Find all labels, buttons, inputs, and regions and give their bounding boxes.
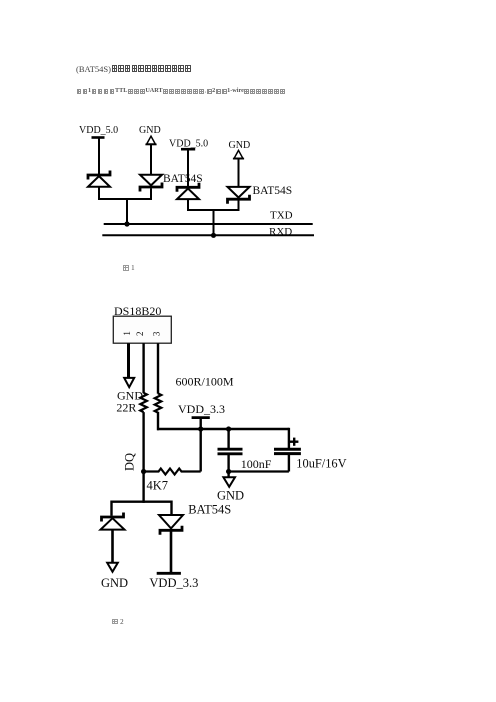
net label VDD_5.0 (pair 2): [169, 139, 208, 150]
svg-text:100nF: 100nF: [241, 457, 272, 471]
subtitle paragraph: [76, 89, 286, 97]
diode D5 BAT54S (cathode to DQ, anode to GND): [101, 513, 125, 530]
svg-text:GND: GND: [101, 576, 128, 590]
svg-text:VDD_3.3: VDD_3.3: [178, 402, 225, 416]
wire pin3 upper: [157, 343, 159, 393]
wire rail right corner down: [288, 428, 290, 448]
net label TXD: [270, 210, 293, 222]
net label VDD_3.3: [178, 402, 225, 416]
svg-text:VDD_5.0: VDD_5.0: [169, 139, 208, 150]
svg-text:VDD_3.3: VDD_3.3: [149, 576, 198, 590]
svg-text:2: 2: [135, 332, 145, 337]
wire VDD to D1 cathode: [98, 139, 100, 175]
svg-text:GND: GND: [229, 140, 251, 151]
capacitor C2 10uF/16V polarized: [274, 449, 301, 471]
caption 图 1: [123, 265, 133, 283]
net label RXD: [269, 226, 292, 238]
wire pin3 to rail corner: [158, 412, 159, 429]
wire pin2 upper: [142, 343, 144, 393]
junction on RXD: [211, 233, 216, 238]
diode D1 BAT54S upper half (cathode to VDD_5.0): [88, 171, 110, 187]
svg-text:3: 3: [151, 331, 161, 336]
wire RXD bus line: [102, 234, 314, 236]
part label BAT54S figure 2: [188, 503, 231, 517]
net label VDD_5.0 (pair 1): [79, 125, 118, 136]
capacitor value 100nF: [241, 457, 272, 471]
svg-text:4K7: 4K7: [147, 479, 169, 493]
wire D5 anode to ground: [111, 531, 114, 564]
svg-text:GND: GND: [139, 125, 161, 136]
wire DQ line middle: [142, 412, 144, 503]
svg-text:VDD_5.0: VDD_5.0: [79, 125, 118, 136]
part label BAT54S (pair 1): [163, 173, 203, 185]
svg-text:BAT54S: BAT54S: [163, 173, 203, 185]
junction DQ / 4K7: [141, 469, 146, 474]
power symbol VDD_3.3 bar bottom: [157, 572, 181, 575]
wire bottom clamp connector: [112, 502, 172, 516]
resistor R3 4K7 pullup: [144, 469, 201, 475]
ground symbol arrow below 100nF: [223, 477, 235, 487]
part label DS18B20: [114, 304, 161, 318]
capacitor C1 100nF: [218, 429, 243, 472]
diode D6 BAT54S (anode to DQ, cathode to VDD_3.3): [159, 515, 183, 535]
wire pair-2 bottom connector: [187, 209, 240, 211]
wire GND to D2 anode: [150, 144, 152, 175]
junction 100nF on rail: [226, 426, 231, 431]
svg-text:10uF/16V: 10uF/16V: [296, 457, 346, 471]
wire D1 anode down: [98, 188, 100, 201]
svg-text:22R: 22R: [116, 401, 136, 415]
svg-text:DQ: DQ: [123, 453, 137, 471]
wire D4 cathode down: [238, 201, 240, 212]
capacitor value 10uF/16V: [296, 457, 346, 471]
wire D3 anode down: [187, 200, 189, 211]
wire capacitor bottom link: [229, 470, 289, 472]
net label VDD_3.3 bottom: [149, 576, 198, 590]
svg-text:BAT54S: BAT54S: [253, 185, 293, 197]
svg-text:GND: GND: [217, 488, 244, 502]
resistor value 600R/100M: [176, 375, 234, 389]
label DQ (rotated): [123, 453, 137, 471]
net label GND (pair 1): [139, 125, 161, 136]
wire pair-1 bottom connector: [98, 198, 152, 200]
ground symbol arrow bottom left: [107, 563, 118, 572]
net label GND pin1: [117, 389, 143, 403]
junction on TXD: [124, 221, 129, 226]
power symbol VDD_5.0 bar (pair 1): [92, 136, 105, 139]
pin number 3: [151, 331, 161, 336]
resistor R1 on DQ line: [140, 393, 147, 412]
resistor value 4K7: [147, 479, 169, 493]
svg-text:1: 1: [122, 331, 132, 336]
svg-text:TXD: TXD: [270, 210, 293, 222]
document title (BAT54S) 关于对数据总线的保护电路: [76, 65, 191, 74]
pin number 1: [122, 331, 132, 336]
wire VDD_3.3 rail: [157, 428, 289, 430]
power symbol VDD_5.0 bar (pair 2): [181, 148, 195, 151]
wire pair-2 drop to RXD: [213, 210, 215, 235]
polarity plus sign: [290, 438, 299, 446]
wire pair-1 drop to TXD: [126, 199, 128, 224]
junction VDD tap on rail: [198, 426, 203, 431]
wire stub to ground arrow: [227, 472, 229, 478]
ground symbol arrow (pair 1): [145, 136, 156, 144]
diode D3 BAT54S upper half (cathode to VDD_5.0): [177, 183, 199, 199]
diode D2 BAT54S lower half (anode to GND): [140, 175, 162, 192]
ground symbol arrow (pair 2): [233, 150, 244, 158]
pin number 2: [135, 332, 145, 337]
wire TXD bus line: [104, 223, 313, 225]
wire D6 cathode to VDD bar: [170, 532, 173, 573]
resistor R2: [155, 393, 162, 412]
resistor value 22R: [116, 401, 136, 415]
ground symbol arrow pin1: [124, 378, 134, 387]
svg-text:BAT54S: BAT54S: [188, 503, 231, 517]
wire D2 cathode down: [150, 188, 152, 200]
part label BAT54S (pair 2): [253, 185, 293, 197]
component U1 DS18B20 body: [113, 316, 171, 343]
power symbol VDD_3.3 bar: [192, 416, 210, 419]
wire pin1 to ground: [127, 343, 130, 379]
net label GND (pair 2): [229, 140, 251, 151]
net label GND bottom: [101, 576, 128, 590]
wire VDD to D3 cathode: [187, 150, 189, 186]
caption 图 2: [112, 619, 122, 637]
wire GND to D4 anode: [238, 158, 240, 187]
diode D4 BAT54S lower half (anode to GND): [228, 187, 250, 204]
net label GND below 100nF: [217, 488, 244, 502]
svg-text:600R/100M: 600R/100M: [176, 375, 234, 389]
junction 100nF bottom: [226, 469, 231, 474]
wire VDD_3.3 tap through rail to 4K7: [199, 419, 201, 472]
